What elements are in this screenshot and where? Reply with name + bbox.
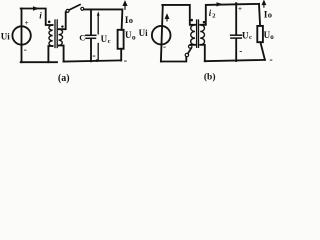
svg-text:i: i [39, 10, 42, 20]
load lead bottom (a) [120, 49, 122, 61]
current arrow i (a) [33, 6, 40, 10]
voltage line Uc upper segment (a) [97, 15, 99, 34]
switch S contact upper (b) [189, 45, 192, 48]
current arrow up (b source) [165, 15, 168, 21]
svg-text:-: - [269, 55, 272, 66]
source Ui (a) lead wire [21, 9, 23, 63]
secondary coil bottom lead (b) [200, 45, 205, 61]
svg-text:+: + [238, 5, 242, 13]
svg-text:o: o [132, 32, 136, 41]
svg-text:-: - [24, 45, 27, 55]
svg-text:-: - [163, 41, 166, 51]
transformer primary dot (a) [48, 21, 51, 24]
wire top (b) primary [162, 5, 195, 25]
svg-text:U: U [101, 34, 108, 44]
svg-text:-: - [239, 46, 242, 56]
transformer secondary dot (a) [61, 25, 63, 27]
wire top right (a) [84, 9, 123, 29]
source Ui (b) lead wire [161, 5, 163, 62]
secondary coil bottom lead (a) [59, 46, 64, 62]
transformer core (a) [54, 20, 56, 48]
load top lead (b) [259, 4, 260, 26]
svg-text:(b): (b) [204, 71, 216, 82]
transformer T secondary coil (b) [200, 25, 204, 45]
switch S contact 2 (a) [81, 7, 84, 10]
svg-text:(a): (a) [58, 73, 70, 84]
source Ui (a) circle [12, 26, 30, 44]
wire secondary top lead (a) [59, 12, 66, 29]
load resistor R (a) [118, 30, 124, 49]
svg-text:+: + [25, 19, 29, 27]
source Ui (b) circle [152, 26, 171, 45]
wire bottom left loop (a) [21, 61, 57, 63]
switch S contact lower (b) [185, 53, 188, 56]
svg-text:o: o [268, 9, 272, 19]
svg-text:2: 2 [212, 12, 215, 19]
svg-text:C: C [79, 32, 85, 42]
svg-text:U: U [242, 30, 249, 40]
switch upper stub to coil (b) [190, 44, 195, 46]
switch S contact 1 (a) [66, 9, 69, 12]
wire bottom right loop (b) [205, 60, 265, 61]
capacitor C lead top (a) [90, 9, 92, 34]
capacitor C lead bottom (b) [235, 39, 237, 61]
switch S blade (a) [69, 5, 80, 10]
svg-text:o: o [129, 15, 133, 25]
transformer T primary coil (b) [191, 25, 195, 45]
transformer core (b) [196, 20, 198, 47]
svg-text:Ui: Ui [1, 31, 10, 41]
transformer primary dot (b) [190, 19, 193, 22]
svg-text:Ui: Ui [139, 28, 148, 38]
capacitor C plate bottom (a) [86, 37, 96, 39]
output current arrow Io (a) [123, 2, 126, 10]
capacitor C plate top (a) [86, 34, 96, 36]
wire bottom left loop (b) [161, 57, 186, 62]
transformer secondary dot (b) [203, 21, 206, 24]
load lead bottom (b) [260, 42, 265, 60]
capacitor C plate bottom (b) [231, 37, 241, 39]
wire top (a) primary [21, 9, 53, 26]
capacitor C lead top (b) [235, 3, 237, 34]
load resistor R (b) [257, 26, 263, 42]
voltage line Uc lower segment (a) [97, 44, 99, 61]
voltage arrow Uc top blob (a) [97, 11, 100, 15]
svg-text:c: c [249, 34, 252, 41]
transformer T secondary coil (a) [59, 29, 63, 45]
svg-text:-: - [124, 55, 127, 66]
svg-text:o: o [270, 33, 274, 41]
svg-text:c: c [108, 38, 111, 45]
capacitor C plate top (b) [231, 34, 242, 36]
junction dot Uc bottom (a) [96, 59, 99, 62]
junction dot cap top (b) [235, 2, 237, 4]
svg-text:-: - [92, 50, 95, 61]
wire secondary top (b) [200, 4, 259, 25]
switch S blade (b) [188, 48, 192, 54]
transformer T primary coil (a) [49, 25, 53, 46]
wire bottom right loop (a) [64, 60, 122, 61]
primary coil bottom lead (a) [48, 46, 52, 62]
current arrow i2 (b) [217, 2, 224, 6]
capacitor C lead bottom (a) [90, 39, 92, 61]
output current arrow Io (b) [262, 1, 265, 7]
